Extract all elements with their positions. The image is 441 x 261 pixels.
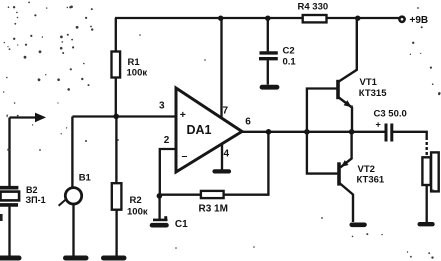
svg-text:C1: C1 (175, 219, 188, 230)
op-amp DA1 (176, 88, 242, 172)
resistor R4 (303, 15, 327, 22)
junction emitters (349, 129, 355, 135)
svg-text:7: 7 (223, 106, 229, 117)
wire input node down to R2 (115, 116, 117, 183)
wire B1 to ground (72, 204, 74, 256)
capacitor C3 (385, 124, 388, 142)
ground pin4 (215, 169, 230, 173)
wire pin4 down (221, 144, 223, 171)
svg-text:6: 6 (245, 117, 251, 128)
arrow head (35, 113, 46, 123)
wire feedback right (224, 132, 269, 195)
terminal +9V (399, 17, 404, 22)
svg-text:В1: В1 (79, 173, 92, 184)
svg-text:100к: 100к (127, 68, 148, 79)
svg-text:R3 1М: R3 1М (199, 204, 228, 215)
resistor R3 (201, 191, 224, 198)
svg-text:DA1: DA1 (187, 123, 212, 137)
svg-text:4: 4 (224, 149, 230, 160)
wire B1 column up (71, 117, 73, 188)
svg-text:VT2: VT2 (358, 164, 375, 175)
wire B2 to ground (8, 207, 10, 256)
wire arrow line acoustic coupling (10, 116, 39, 118)
svg-text:В2: В2 (26, 185, 38, 195)
junction pin7 column on rail (218, 16, 223, 21)
wire top supply rail (115, 17, 399, 19)
transistor VT2 (337, 162, 341, 185)
svg-text:–: – (182, 150, 188, 162)
junction base column (304, 129, 310, 135)
svg-text:R2: R2 (130, 195, 142, 206)
wire feedback left (160, 194, 201, 196)
ground earphone (420, 222, 433, 226)
microphone B1 (65, 188, 81, 204)
svg-text:3: 3 (159, 101, 165, 112)
wire base column to VT2 (307, 132, 338, 174)
wire base column to VT1 (307, 89, 337, 132)
svg-text:+: + (180, 109, 186, 121)
ground C2 (262, 85, 277, 90)
junction input node (113, 114, 119, 120)
svg-text:КТ315: КТ315 (359, 88, 387, 99)
wire C3 to earphone (392, 132, 427, 137)
wire pin 2 input (160, 149, 176, 196)
capacitor C2 (267, 18, 269, 51)
ground R2 (104, 256, 125, 261)
wire R1 to input node (115, 78, 117, 117)
svg-text:+9В: +9В (410, 15, 429, 26)
wire R2 to ground (115, 210, 117, 256)
svg-text:2: 2 (164, 135, 170, 146)
wire from rail corner down to R1 (115, 18, 117, 52)
wire output pin 6 (242, 131, 385, 133)
svg-text:0.1: 0.1 (283, 57, 297, 68)
svg-text:ЗП-1: ЗП-1 (26, 195, 46, 205)
resistor R1 (112, 52, 121, 78)
svg-text:R4 330: R4 330 (298, 2, 329, 13)
wire pin7 from rail (220, 18, 222, 121)
svg-text:R1: R1 (128, 57, 141, 68)
svg-text:C2: C2 (283, 46, 295, 57)
junction feedback tap (266, 129, 272, 135)
wire pin 3 input (72, 115, 175, 117)
svg-text:100к: 100к (127, 207, 148, 218)
sound emitter B2 (ЗП-1) (0, 186, 18, 190)
transistor VT1 (336, 80, 340, 99)
junction pin2 node (157, 193, 163, 199)
wire earphone to ground (426, 185, 428, 222)
junction C2 column on rail (265, 16, 270, 21)
ground B1 (66, 256, 87, 261)
capacitor C1 (158, 196, 160, 220)
svg-text:+: + (376, 120, 381, 130)
earphone (431, 152, 439, 191)
wire B2 column up (8, 118, 10, 187)
ground VT2 (352, 223, 365, 228)
ground C1 (152, 223, 167, 228)
junction VT1 collector on rail (355, 16, 360, 21)
resistor R2 (112, 183, 122, 210)
svg-text:C3 50.0: C3 50.0 (374, 109, 407, 120)
ground B2 (0, 256, 19, 261)
svg-text:КТ361: КТ361 (357, 175, 385, 186)
svg-text:VT1: VT1 (360, 77, 378, 88)
